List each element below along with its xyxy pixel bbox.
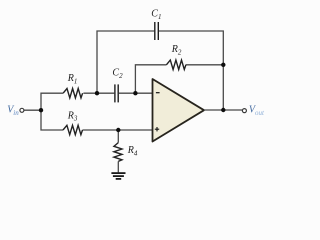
terminal Vin (7, 105, 24, 117)
capacitor C1 (151, 9, 161, 40)
wire R4 lower lead (117, 161, 119, 172)
resistor R3 (63, 110, 83, 134)
terminal Vout (242, 105, 265, 117)
wire inverting-input row (41, 93, 152, 110)
ground (111, 173, 125, 179)
resistor R1 (63, 73, 83, 98)
op-amp U1 (153, 79, 205, 142)
node Vin junction (39, 108, 43, 112)
wire Vin lead (24, 109, 41, 111)
wire top row C1 left segment (97, 31, 154, 93)
wire R4 upper lead (117, 130, 119, 143)
resistor R4 (114, 143, 138, 162)
node inverting input junction (133, 91, 137, 95)
wire top row C1 right segment (159, 31, 223, 110)
wire output (204, 109, 242, 111)
capacitor C2 (112, 68, 123, 103)
resistor R2 (166, 44, 186, 69)
node R2 output junction (221, 63, 225, 67)
wire noninverting-input row (41, 110, 152, 130)
wire R2 row (135, 65, 223, 93)
node output junction (221, 108, 225, 112)
node R4 junction (116, 128, 120, 132)
node R1-C1 junction (95, 91, 99, 95)
